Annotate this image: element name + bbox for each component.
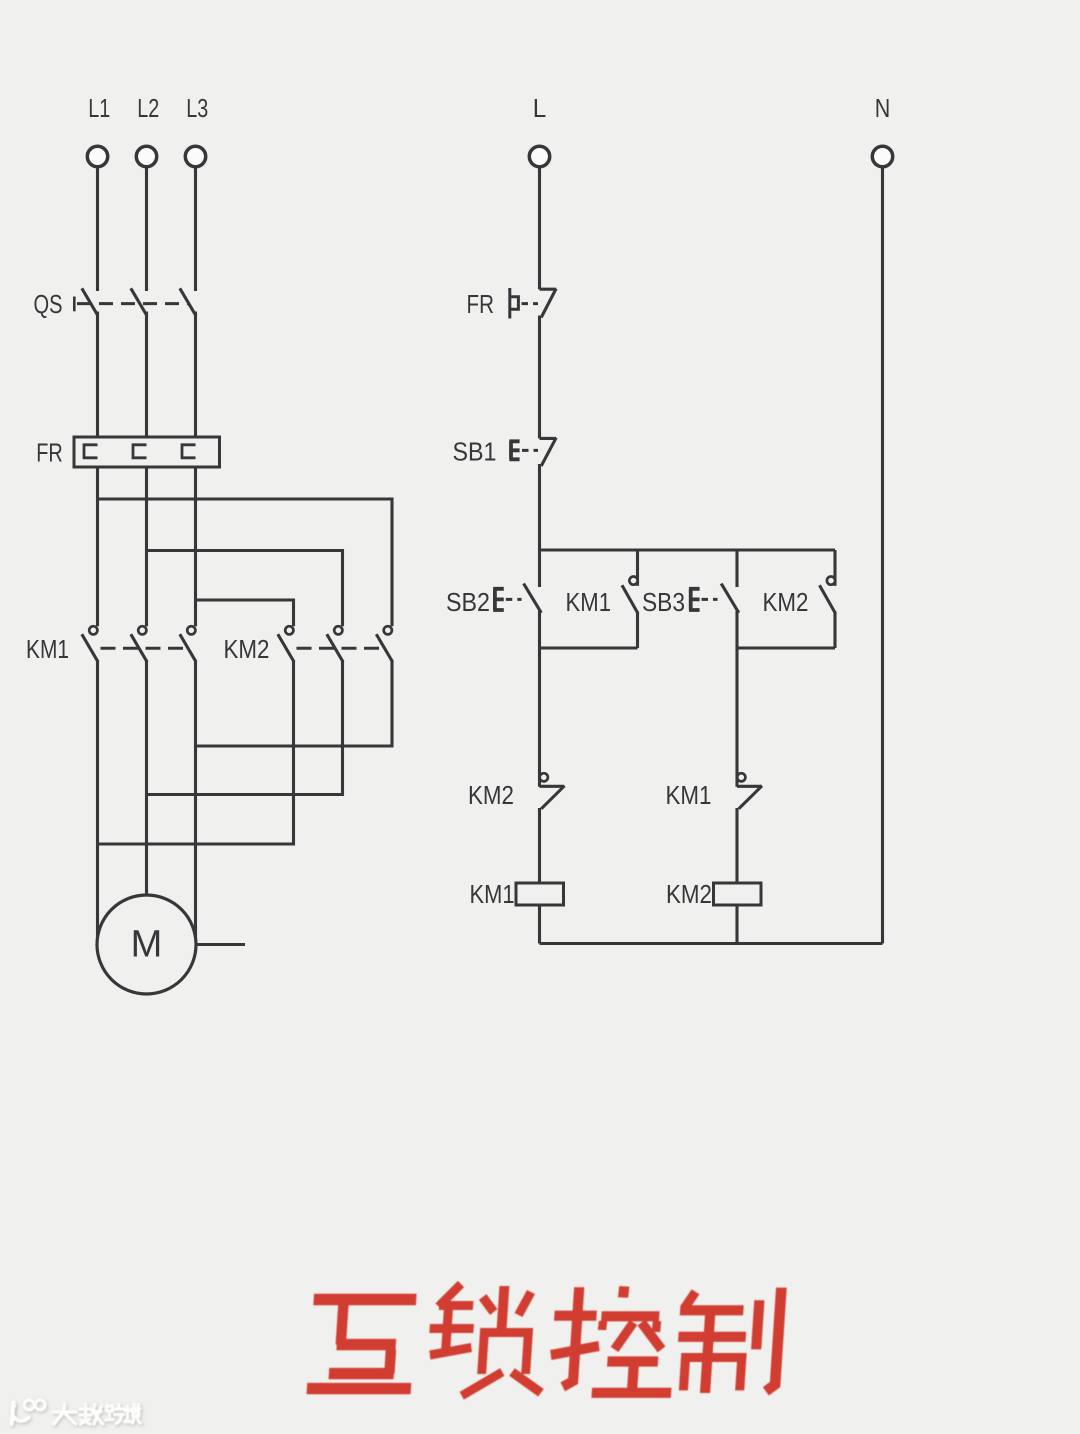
wire KM2 NC to KM1 coil (538, 808, 541, 883)
svg-text:KM1: KM1 (566, 587, 612, 617)
terminal L3 (185, 146, 205, 166)
svg-text:L1: L1 (88, 93, 110, 123)
KM2 aux NO contact blade (820, 585, 836, 613)
FR heater element pole 2 (133, 445, 147, 458)
wire N (881, 167, 884, 944)
contactor KM2 main pole 1 blade (278, 634, 294, 662)
wire KM2 coil to bottom rail (735, 905, 738, 944)
terminal L (529, 146, 549, 166)
contactor KM2 main pole 2 fixed-contact hook (334, 626, 342, 634)
contactor KM2 main pole 1 fixed-contact hook (285, 626, 293, 634)
SB3 NO contact blade (721, 584, 739, 613)
svg-text:SB3: SB3 (642, 587, 685, 617)
SB1 NC contact seat bar (540, 437, 557, 440)
svg-text:L: L (533, 93, 547, 123)
wire top rail drop to SB3 (735, 550, 738, 587)
wire KM1 NC to KM2 coil (735, 808, 738, 883)
contactor KM2 main pole 3 blade (376, 634, 392, 662)
KM2 linkage dashed (297, 647, 385, 650)
svg-text:QS: QS (34, 289, 63, 319)
KM2 aux fixed-contact hook (827, 577, 835, 585)
svg-text:L3: L3 (186, 93, 208, 123)
SB2 button actuator E (493, 589, 504, 610)
coil KM2 (714, 883, 762, 905)
svg-text:KM2: KM2 (763, 587, 809, 617)
svg-text:FR: FR (467, 289, 495, 319)
wire L to FR contact (538, 167, 541, 289)
KM1 NC contact seat bar (737, 785, 762, 788)
wire branch L2 phase to KM2 pole2 (147, 551, 343, 627)
wire KM2 pole1 to node U (98, 660, 294, 844)
svg-text:KM2: KM2 (468, 780, 514, 810)
KM1 NC fixed-contact hook (737, 773, 745, 781)
svg-text:KM1: KM1 (26, 634, 69, 664)
svg-text:SB2: SB2 (446, 587, 490, 617)
contactor KM2 main pole 2 blade (327, 634, 343, 662)
contactor KM1 main pole 2 blade (131, 634, 147, 662)
svg-text:L2: L2 (137, 93, 159, 123)
FR heater element pole 3 (182, 445, 196, 458)
FR NC contact seat bar (540, 288, 557, 291)
svg-text:M: M (131, 924, 163, 966)
contactor KM1 main pole 2 fixed-contact hook (138, 626, 146, 634)
switch QS pole 3 blade (180, 288, 196, 316)
FR NC contact dashed link (522, 302, 539, 305)
switch QS pole 1 blade (82, 288, 98, 316)
bottom rail to N (540, 942, 883, 945)
switch QS pole 2 blade (131, 288, 147, 316)
watermark logo and text 大数跨境 (shadow) (13, 1402, 142, 1426)
SB1 dashed link (522, 449, 538, 452)
SB2 dashed link (506, 598, 522, 601)
wire KM2 pole2 to node V (147, 660, 343, 794)
contactor KM2 main pole 3 fixed-contact hook (384, 626, 392, 634)
coil KM1 (516, 883, 564, 905)
wire SB3 down-branch to KM1 NC (735, 611, 738, 787)
motor terminal stub (197, 943, 246, 946)
terminal N (872, 146, 892, 166)
svg-text:N: N (875, 93, 891, 123)
wire FR pole 2 to KM1 contact (145, 467, 148, 626)
wire KM1 coil to bottom rail (538, 905, 541, 944)
title 互锁控制 (red) (307, 1284, 781, 1396)
FR heater element pole 1 (84, 445, 98, 458)
watermark logo 100 and text 大数跨境 (12, 1400, 141, 1424)
contactor KM1 main pole 1 fixed-contact hook (89, 626, 97, 634)
FR NC contact blade (541, 289, 556, 318)
KM1 linkage dashed (101, 647, 189, 650)
wire top rail drop to KM2 aux (833, 550, 836, 586)
switch QS linkage dashed (77, 302, 188, 305)
top rail of parallel branches (540, 548, 836, 551)
KM1 aux NO contact blade (622, 585, 638, 613)
svg-text:SB1: SB1 (453, 437, 497, 467)
FR NC contact actuator (510, 288, 519, 319)
motor M (97, 895, 196, 994)
wire QS pole 3 to FR (194, 312, 197, 438)
terminal L2 (136, 146, 156, 166)
wire SB2 down-branch to KM2 NC (538, 611, 541, 787)
wire KM2 pole3 to node W (196, 660, 393, 746)
KM1 NC contact blade (739, 786, 762, 809)
terminal L1 (87, 146, 107, 166)
bottom rail left branch pair (540, 646, 638, 649)
svg-text:KM1: KM1 (470, 879, 515, 909)
SB1 NC contact blade (541, 438, 556, 466)
wire FR pole 1 to KM1 contact (96, 467, 99, 626)
KM2 NC fixed-contact hook (540, 773, 548, 781)
wire L1 to QS (96, 167, 99, 291)
wire FR to SB1 (538, 316, 541, 439)
wire QS pole 1 to FR (96, 312, 99, 438)
contactor KM1 main pole 3 fixed-contact hook (187, 626, 195, 634)
wire KM2 aux to bottom rail (833, 612, 836, 649)
wire branch L1 phase to KM2 pole3 (98, 499, 393, 626)
KM2 NC contact seat bar (540, 785, 565, 788)
wire KM1 pole3 to motor W (194, 660, 197, 940)
wire branch L3 phase to KM2 pole1 (196, 600, 294, 626)
wire KM1 pole1 to motor U (96, 660, 99, 940)
KM1 aux fixed-contact hook (629, 577, 637, 585)
wire KM1 aux to bottom rail (636, 612, 639, 649)
KM2 NC contact blade (541, 786, 564, 809)
switch QS handle tick (73, 297, 76, 312)
SB3 dashed link (702, 598, 718, 601)
SB2 NO contact blade (524, 584, 542, 613)
svg-text:KM1: KM1 (666, 780, 712, 810)
thermal overload FR box (74, 437, 220, 467)
wire KM1 pole2 to motor V (145, 660, 148, 895)
wire top rail drop to KM1 aux (636, 550, 639, 586)
SB3 button actuator E (689, 589, 700, 610)
svg-text:KM2: KM2 (666, 879, 712, 909)
wire FR pole 3 to KM1 contact (194, 467, 197, 626)
wire L3 to QS (194, 167, 197, 291)
contactor KM1 main pole 1 blade (82, 634, 98, 662)
svg-text:KM2: KM2 (224, 634, 270, 664)
contactor KM1 main pole 3 blade (180, 634, 196, 662)
SB1 button actuator E (509, 441, 519, 459)
wire L2 to QS (145, 167, 148, 291)
svg-text:FR: FR (36, 438, 63, 468)
wire SB1 to SB2 (538, 464, 541, 587)
wire QS pole 2 to FR (145, 312, 148, 438)
bottom rail right branch pair (737, 646, 835, 649)
